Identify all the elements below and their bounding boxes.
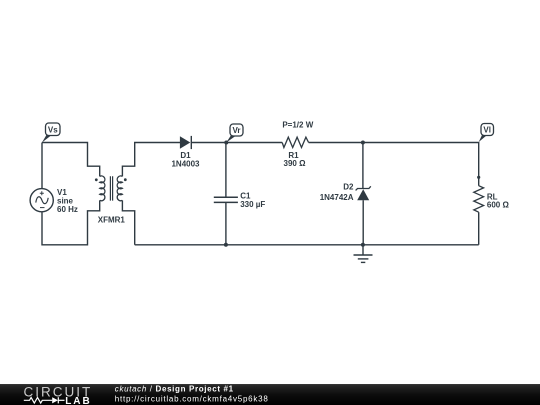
svg-text:600 Ω: 600 Ω [487,201,510,210]
label D1 1N4003 [171,151,200,168]
footer bar [0,384,540,405]
svg-text:D2: D2 [343,183,354,192]
ground [354,245,373,263]
label D2 1N4742A [320,183,354,202]
wire D2 branch top [362,143,364,189]
svg-text:Vs: Vs [48,125,58,134]
node Vl flag [479,124,494,143]
resistor RL [474,186,484,213]
svg-text:ckutach / Design Project #1: ckutach / Design Project #1 [115,385,234,394]
wire top rail D1 to R1 [191,142,282,144]
svg-text:1N4003: 1N4003 [171,159,200,168]
transformer phase dot left [95,178,98,181]
capacitor C1 [214,197,238,202]
transformer phase dot right [124,178,127,181]
svg-text:390 Ω: 390 Ω [284,159,307,168]
svg-text:P=1/2 W: P=1/2 W [282,120,313,129]
wire C1 branch bottom [225,202,227,244]
junction dot D2 bottom [361,243,365,247]
svg-text:http://circuitlab.com/ckmfa4v5: http://circuitlab.com/ckmfa4v5p6k38 [115,394,269,403]
wire C1 branch top [225,143,227,198]
label C1 330 uF [240,192,265,209]
node Vs flag [42,123,60,143]
junction dot D2 top [361,141,365,145]
wire bottom rail [135,244,479,246]
wire D2 branch bottom [362,200,364,245]
wire joint dot above RL [477,176,480,179]
wire top rail R1 to Vl corner and down to RL [309,143,479,186]
junction dot C1 bottom [224,243,228,247]
wire V1 bottom to primary bottom lead [42,200,100,244]
zener diode D2 [356,186,371,200]
wire secondary top lead to D1 [122,143,180,177]
voltage source V1 [30,189,53,212]
svg-text:Vl: Vl [483,126,491,135]
label V1 sine 60 Hz [57,188,78,214]
svg-text:XFMR1: XFMR1 [98,216,126,225]
wire secondary bottom lead [122,200,134,244]
diode D1 [180,136,191,149]
svg-text:Vr: Vr [232,126,240,135]
svg-text:60 Hz: 60 Hz [57,205,78,214]
resistor R1 [282,137,308,147]
svg-text:1N4742A: 1N4742A [320,193,354,202]
svg-text:330 µF: 330 µF [240,200,265,209]
node Vr junction dot [224,141,228,145]
wire left vertical from Vs node to V1 [41,143,43,189]
wire top rail primary from Vs node [42,143,100,177]
logo diode triangle [52,397,58,403]
wire RL bottom lead [478,212,480,245]
label R1 390 ohm [284,151,307,168]
node Vr flag [226,124,243,143]
label RL 600 ohm [487,192,510,209]
logo squiggle resistor and diode [24,397,65,403]
transformer XFMR1 [100,176,123,201]
svg-text:LAB: LAB [65,396,92,405]
